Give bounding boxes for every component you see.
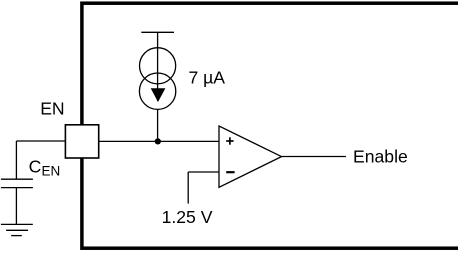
svg-text:Enable: Enable bbox=[353, 147, 408, 167]
svg-text:1.25 V: 1.25 V bbox=[162, 207, 213, 227]
svg-text:7 µA: 7 µA bbox=[189, 68, 226, 88]
svg-text:EN: EN bbox=[40, 99, 64, 119]
svg-text:EN: EN bbox=[42, 163, 61, 178]
svg-text:C: C bbox=[29, 156, 42, 176]
